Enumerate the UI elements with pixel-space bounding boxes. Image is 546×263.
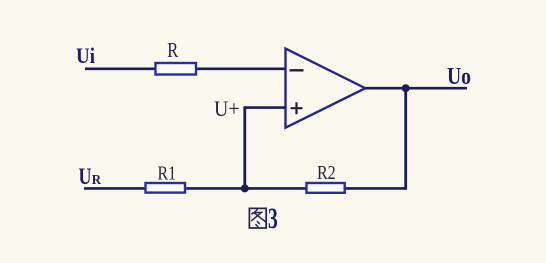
wire U+ node to op-amp noninverting input: [245, 106, 286, 109]
resistor R2: [307, 183, 345, 193]
wire R2 to feedback corner: [346, 187, 406, 190]
node UR label: [79, 164, 102, 190]
resistor R: [156, 63, 197, 75]
wire U+ vertical down to bottom node: [243, 106, 246, 188]
svg-text:U: U: [79, 164, 92, 190]
op-amp plus pin symbol: [291, 102, 303, 114]
junction output node: [402, 84, 410, 92]
svg-text:R2: R2: [317, 162, 336, 184]
svg-text:3: 3: [268, 202, 278, 235]
svg-text:Ui: Ui: [76, 43, 95, 68]
wire bottom node to R2: [245, 187, 307, 190]
op-amp minus pin symbol: [290, 69, 304, 71]
svg-text:R1: R1: [158, 162, 177, 184]
svg-text:U+: U+: [214, 96, 240, 121]
wire Ui to R: [85, 68, 155, 71]
wire R to op-amp inverting input: [197, 68, 286, 71]
svg-text:R: R: [167, 38, 178, 62]
svg-text:R: R: [92, 173, 102, 188]
svg-text:Uo: Uo: [447, 63, 471, 90]
value label R2: [317, 162, 336, 184]
caption figure character tu: [249, 208, 266, 228]
resistor R1: [146, 183, 186, 193]
wire feedback vertical up to output node: [404, 88, 407, 190]
caption figure number 3: [268, 202, 278, 235]
value label R1: [158, 162, 177, 184]
node Ui label: [76, 43, 95, 68]
value label R: [167, 38, 178, 62]
wire UR to R1: [84, 187, 145, 190]
node U+ label: [214, 96, 240, 121]
wire op-amp output to Uo: [365, 87, 467, 90]
wire R1 to bottom node: [186, 187, 245, 190]
junction bottom node: [241, 184, 249, 192]
node Uo label: [447, 63, 471, 90]
op-amp U1: [286, 49, 366, 128]
